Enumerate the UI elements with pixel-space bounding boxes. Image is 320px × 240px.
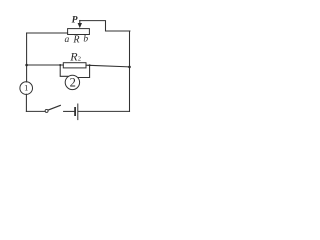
wire switch to battery [64, 110, 75, 112]
switch S blade [48, 105, 60, 110]
junction right rail / middle wire [128, 66, 131, 69]
wire left rail upper [26, 33, 28, 82]
junction left rail / middle wire [25, 64, 28, 67]
svg-text:P: P [72, 14, 78, 25]
potentiometer P box [68, 29, 90, 35]
meter 1 circle [20, 82, 33, 95]
svg-text:b: b [83, 35, 88, 45]
wire right rail [129, 31, 131, 111]
potentiometer wiper arrow shaft [79, 21, 81, 24]
potentiometer wiper arrowhead [78, 23, 82, 28]
junction meter2 left [59, 64, 61, 66]
wire meter2 branch left drop [60, 65, 68, 76]
wire wiper jog to right rail [80, 21, 130, 31]
svg-text:R: R [72, 35, 79, 46]
wire bottom left to switch [26, 110, 45, 112]
wire battery to bottom right corner [78, 110, 129, 112]
middle wire R2 to right rail [86, 65, 130, 67]
resistor R2 box [63, 63, 86, 68]
meter 2 circle [65, 75, 79, 89]
junction meter2 right [89, 64, 91, 66]
svg-text:2: 2 [70, 75, 76, 89]
middle wire left rail to R2 [27, 64, 64, 66]
battery short plate [74, 108, 76, 115]
wire left rail lower [25, 94, 27, 111]
svg-text:1: 1 [24, 83, 28, 93]
svg-text:a: a [65, 35, 70, 45]
svg-text:2: 2 [78, 56, 81, 63]
wire meter2 branch right drop [78, 65, 89, 77]
wire top left horizontal [27, 32, 68, 34]
switch S pivot [45, 109, 48, 112]
battery long plate [77, 104, 79, 120]
